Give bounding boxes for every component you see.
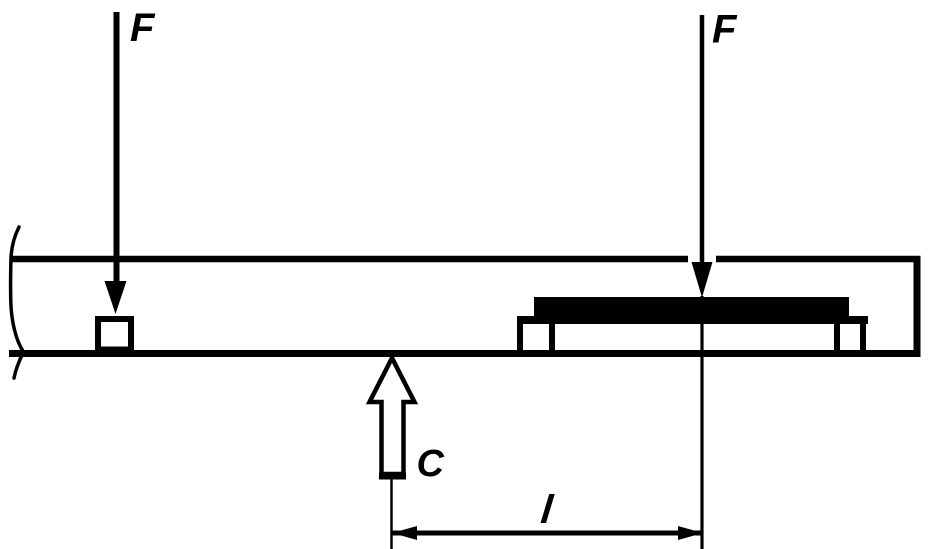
label F (left): [130, 6, 156, 50]
dimension line l: [392, 531, 703, 536]
specimen plate: [517, 316, 868, 324]
dimension arrowhead right: [678, 526, 703, 540]
force arrow F (right) head: [692, 262, 713, 298]
label C: [417, 443, 445, 485]
right assembly left support block: [520, 318, 552, 352]
support arrow C (hollow outline): [370, 358, 415, 474]
beam bottom line: [9, 350, 921, 357]
force line F (right) extension through specimen to bottom: [700, 296, 703, 549]
beam left break edge: [11, 227, 24, 378]
specimen dark strip: [534, 297, 849, 317]
dimension arrowhead left: [392, 526, 417, 540]
label l: [539, 488, 556, 532]
beam top line (left segment): [10, 256, 688, 263]
svg-text:F: F: [130, 6, 156, 50]
beam right edge: [914, 256, 921, 357]
support arrow C extension line to bottom: [390, 479, 393, 549]
beam top line (right segment): [716, 256, 921, 263]
support arrow C bottom bar: [379, 473, 406, 480]
force arrow F (right) shaft: [700, 15, 705, 265]
svg-text:F: F: [712, 8, 738, 52]
left support block: [98, 319, 131, 350]
right assembly right support block: [837, 322, 863, 352]
svg-text:l: l: [539, 488, 556, 532]
force arrow F (left) shaft: [114, 12, 120, 284]
force arrow F (left) head: [105, 281, 127, 314]
label F (right): [712, 8, 738, 52]
svg-text:C: C: [417, 443, 445, 485]
